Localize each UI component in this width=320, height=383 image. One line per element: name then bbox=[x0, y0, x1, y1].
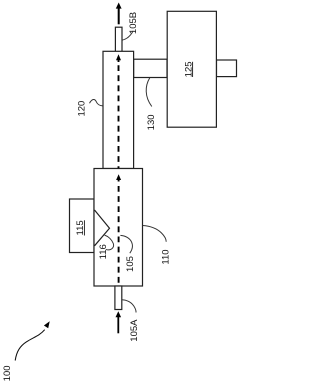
leader to centerline 105 bbox=[120, 235, 132, 253]
svg-text:105B: 105B bbox=[128, 12, 139, 34]
svg-text:120: 120 bbox=[76, 101, 87, 117]
svg-text:116: 116 bbox=[98, 244, 109, 259]
label 125 (underlined) bbox=[184, 61, 195, 77]
leader to nozzle 116 bbox=[105, 235, 114, 250]
dashed centerline segment in 110 bbox=[116, 174, 121, 285]
reference arrow 100 bbox=[15, 321, 50, 360]
dashed centerline segment in 120 bbox=[116, 54, 121, 168]
svg-text:130: 130 bbox=[146, 114, 157, 130]
leader to bar 130 bbox=[146, 78, 152, 107]
leader to rect 120 bbox=[90, 100, 103, 106]
svg-text:105A: 105A bbox=[129, 319, 140, 342]
tube bottom (inlet port) bbox=[115, 286, 122, 310]
rect 125 (motor block) bbox=[167, 11, 216, 127]
rect 110 (lower chamber body) bbox=[94, 169, 143, 287]
tube top (outlet port) bbox=[115, 27, 122, 52]
arrow 105B (top outlet flow arrow) bbox=[116, 3, 122, 25]
rect 120 (upper tube body) bbox=[103, 51, 134, 168]
label 115 (underlined) bbox=[75, 220, 86, 235]
rect 115 (side box) bbox=[70, 199, 95, 253]
stub on right of 125 bbox=[217, 60, 237, 77]
svg-text:100: 100 bbox=[2, 365, 13, 381]
svg-text:105: 105 bbox=[125, 256, 136, 272]
leader to 105B tube bbox=[122, 31, 133, 41]
leader to rect 110 bbox=[143, 226, 167, 242]
bar 130 (connecting arm) bbox=[134, 59, 167, 77]
leader to 105A tube bbox=[122, 300, 136, 313]
triangle 116 (nozzle) bbox=[95, 210, 110, 246]
svg-text:110: 110 bbox=[161, 249, 172, 264]
arrow 105A (bottom inlet flow arrow) bbox=[116, 311, 122, 333]
